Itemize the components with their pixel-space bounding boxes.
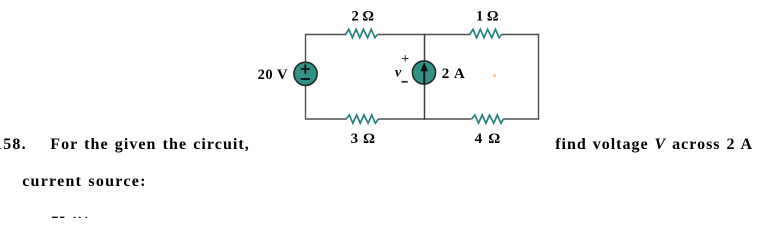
label minus polarity of v	[402, 81, 408, 83]
current source I1 arrow up	[421, 62, 429, 84]
resistor R4 4Ω zigzag	[472, 115, 504, 123]
resistor R3 3Ω zigzag	[346, 115, 378, 123]
svg-text:2 Ω: 2 Ω	[352, 9, 375, 25]
wire top-left segment	[306, 34, 347, 36]
svg-text:+: +	[401, 52, 409, 67]
wire bottom-middle segment	[378, 118, 471, 120]
voltage source V1 minus sign	[301, 78, 310, 80]
question number 158	[0, 137, 27, 153]
wire left vertical lower	[305, 84, 307, 120]
svg-text:v: v	[395, 66, 402, 81]
svg-text:4 Ω: 4 Ω	[475, 131, 502, 147]
wire bottom-left segment	[306, 118, 347, 120]
wire left vertical upper	[305, 34, 307, 64]
wire top-right segment	[502, 34, 540, 36]
resistor R1 2Ω zigzag	[346, 29, 378, 37]
question text line2	[22, 174, 146, 190]
question text line1 left part	[50, 137, 250, 153]
wire middle vertical upper	[424, 34, 426, 63]
wire bottom-right segment	[503, 118, 539, 120]
svg-text:1 Ω: 1 Ω	[476, 9, 499, 25]
svg-text:20 V: 20 V	[258, 67, 288, 83]
resistor R2 1Ω zigzag	[470, 29, 502, 37]
svg-text:2 A: 2 A	[442, 66, 466, 82]
current source I1 2A circle	[412, 61, 435, 84]
wire top-middle segment	[378, 34, 471, 36]
question text line1 right part	[555, 137, 753, 153]
stray orange dot artifact	[493, 74, 496, 77]
voltage source V1 20V circle	[294, 62, 317, 85]
clipped answer text bottom	[46, 213, 106, 219]
voltage source V1 plus sign	[301, 64, 310, 73]
svg-text:3 Ω: 3 Ω	[351, 131, 376, 147]
wire right vertical	[538, 34, 540, 120]
wire middle vertical lower	[424, 84, 426, 120]
